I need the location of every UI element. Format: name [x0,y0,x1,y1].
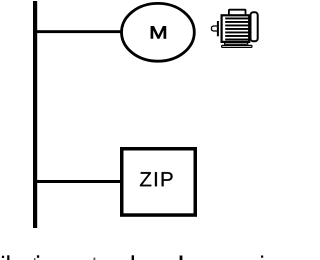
motor icon: base plate [222,45,252,47]
t top (faint) [34,258,35,260]
motor icon: end plate (left flange) [217,21,219,36]
l ascender [180,256,183,260]
i-dot [2,256,4,258]
l ascender [7,255,9,260]
ZIP label letter Z [140,172,151,186]
motor icon: fins [225,18,249,41]
caption letter tops (cut off at bottom edge) [2,255,263,260]
l ascender [132,255,134,260]
i-dot [261,256,263,258]
busbar [33,1,37,228]
motor icon: terminal box [229,10,246,17]
motor M1 circle [121,3,194,61]
motor icon: shaft [212,26,218,31]
motor icon: end cap [251,12,258,41]
motor icon: body [222,15,250,42]
motor M1 label "M" [151,26,166,38]
i-dot [37,255,39,257]
ZIP label letter I [155,172,157,186]
ZIP label letter P [162,172,173,186]
motor icon: foot strip [225,42,248,44]
ZIP box [122,149,196,215]
wire to ZIP box [37,180,122,183]
t top (faint) [94,258,96,260]
wire to motor M1 [37,30,122,33]
